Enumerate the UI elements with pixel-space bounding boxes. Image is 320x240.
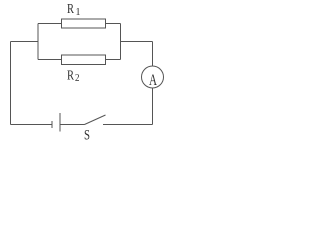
svg-text:1: 1 (76, 7, 81, 18)
svg-text:R: R (67, 2, 74, 17)
svg-text:S: S (84, 128, 90, 144)
svg-text:R: R (67, 69, 74, 84)
svg-text:2: 2 (75, 73, 80, 84)
svg-text:A: A (149, 72, 158, 89)
